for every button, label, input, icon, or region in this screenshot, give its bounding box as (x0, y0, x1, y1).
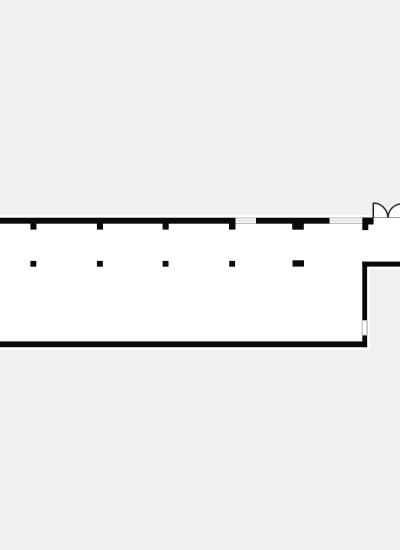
door D1 threshold line (373, 217, 400, 219)
wall top segment B (256, 218, 330, 224)
window W1 glazing lines (236, 218, 257, 223)
wall top segment A (0, 218, 236, 224)
column C5 (wide) (293, 260, 305, 266)
door D1 leaf swing quarter-disc (left leaf) (373, 203, 387, 217)
pilaster P3 (163, 222, 169, 230)
wall end post (L-block) lower part (362, 225, 368, 231)
room floor white underlay (main hall with outer white halo) (0, 215, 370, 350)
door D1 leaf swing quarter-disc (right leaf) (388, 204, 400, 218)
column C4 (229, 261, 235, 267)
pilaster P4 at window jamb (229, 222, 236, 230)
door D2 opening in right wall (362, 320, 368, 335)
pilaster P2 (97, 222, 103, 230)
wall right vertical (362, 262, 367, 348)
door D2 frame lines (362, 321, 367, 335)
pilaster P5 (wide) (292, 222, 304, 230)
column C3 (163, 261, 169, 267)
column C1 (30, 261, 36, 267)
door D1 left leaf line (jamb) (372, 203, 374, 218)
pilaster P1 (30, 222, 36, 230)
column C2 (97, 261, 103, 267)
window W2 glazing lines (330, 218, 363, 223)
wall upper-right horizontal (362, 262, 400, 267)
door D1 right swing arc (388, 204, 400, 218)
wall bottom (0, 341, 367, 347)
room floor white underlay (upper-right extension) (362, 215, 400, 269)
door D1 left swing arc (373, 203, 387, 217)
wall end post (L-block) upper part (362, 218, 373, 225)
